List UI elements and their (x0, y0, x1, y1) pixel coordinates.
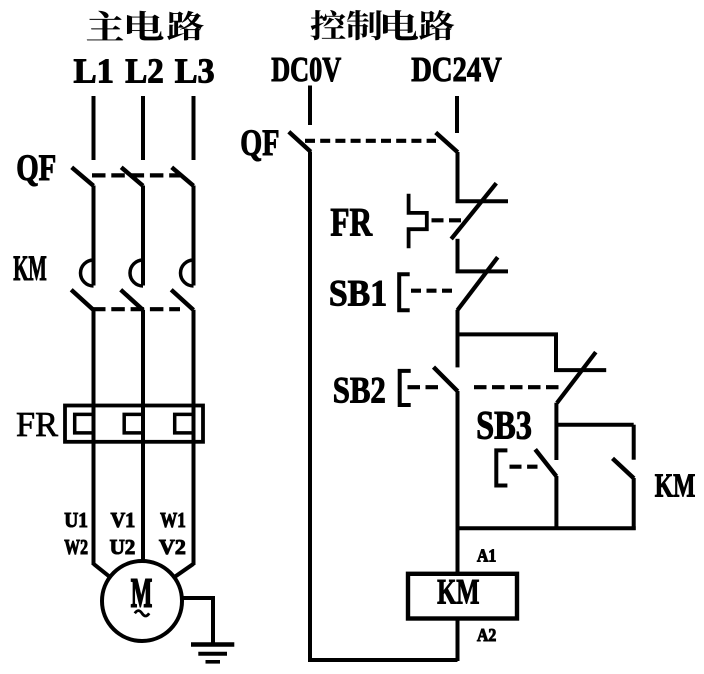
pushbutton SB3 NO blade (535, 449, 556, 476)
pushbutton SB2 NO blade (434, 367, 458, 391)
svg-text:DC0V: DC0V (271, 50, 341, 89)
wire coil to bottom return (456, 619, 460, 662)
wire DC24V stub (455, 96, 459, 133)
pushbutton SB1 actuator bracket (399, 274, 410, 310)
wire motor to ground (183, 596, 214, 600)
svg-text:V1: V1 (111, 508, 136, 532)
wire lead L into motor (94, 564, 110, 577)
FR actuator link dashed (432, 218, 464, 222)
svg-text:U2: U2 (110, 535, 136, 559)
thermal relay FR trip actuator (409, 194, 427, 248)
contactor KM main contact blade 2 (121, 290, 143, 310)
svg-text:L3: L3 (175, 52, 215, 91)
wire branch to SB2-NC (456, 334, 557, 370)
svg-text:V2: V2 (159, 535, 186, 559)
contact FR NC blade (451, 183, 496, 239)
svg-text:SB2: SB2 (333, 371, 386, 412)
motor M1 circle (102, 561, 182, 641)
wire SB2 to KM coil (456, 391, 460, 574)
title main-circuit 主电路 (87, 11, 204, 41)
pushbutton SB1 NC blade (457, 257, 497, 310)
wire QF-to-KM phase 2 (141, 186, 145, 286)
svg-text:SB3: SB3 (476, 403, 532, 448)
wire KM aux to junction (632, 478, 636, 530)
wire FR to SB1 (456, 239, 460, 272)
contact KM aux NO blade (613, 458, 634, 478)
motor AC tilde (135, 611, 149, 616)
wire QF to FR contact (456, 152, 460, 202)
wire L2 feeder stub (141, 96, 145, 160)
wire L1 feeder stub (92, 96, 96, 160)
thermal relay FR box (65, 406, 203, 442)
svg-text:KM: KM (13, 248, 47, 288)
contactor KM main contact blade 3 (171, 290, 193, 310)
ground bar 1 (191, 642, 234, 646)
pushbutton SB1 NC bar (456, 269, 509, 273)
svg-text:L2: L2 (125, 52, 164, 91)
wire L3 feeder stub (192, 96, 196, 160)
breaker QF control linkage dashed (305, 139, 436, 143)
wire bottom junction bar (456, 526, 636, 530)
SB1 actuator link dashed (411, 289, 455, 293)
svg-text:QF: QF (240, 123, 279, 164)
svg-text:FR: FR (16, 405, 59, 444)
wire KM-to-motor phase 3 (192, 310, 196, 565)
breaker QF pole 3 blade (172, 167, 194, 186)
svg-text:L1: L1 (74, 52, 115, 91)
SB3 actuator link dashed (510, 465, 538, 469)
svg-text:DC24V: DC24V (411, 50, 502, 89)
svg-text:KM: KM (655, 468, 696, 505)
wire tap down to KM aux (632, 425, 636, 460)
contactor KM linkage dashed (92, 307, 180, 311)
svg-text:U1: U1 (64, 508, 88, 532)
title control-circuit 控制电路 (311, 10, 455, 40)
thermal relay FR heater 3 (175, 414, 194, 433)
wire QF-to-KM phase 1 (92, 186, 96, 286)
wire SB1 to SB2 (456, 310, 460, 367)
pushbutton SB2 actuator bracket (400, 371, 411, 405)
wire lead R into motor (175, 564, 194, 577)
contactor KM main contact blade 1 (71, 290, 93, 310)
contactor KM main contact arc 3 (181, 260, 194, 286)
wire KM-to-motor phase 2 (141, 310, 145, 562)
ground stem (211, 596, 215, 645)
SB2 actuator link dashed left (408, 385, 442, 389)
wire SB3 to junction (554, 476, 558, 530)
breaker QF control pole L blade (289, 132, 311, 152)
pushbutton SB3 actuator bracket (496, 450, 507, 485)
ground bar 2 (198, 652, 227, 656)
contactor KM main contact arc 2 (130, 260, 143, 286)
wire DC0V rail and bottom return (310, 152, 458, 661)
wire DC0V stub (308, 86, 312, 126)
breaker QF pole 2 blade (121, 167, 143, 186)
svg-text:A2: A2 (477, 625, 496, 645)
ground bar 3 (206, 660, 221, 664)
contact FR NC bar (456, 199, 509, 203)
contactor coil KM box (408, 574, 517, 619)
svg-text:FR: FR (330, 200, 373, 245)
svg-text:W1: W1 (160, 508, 186, 532)
breaker QF pole 1 blade (72, 167, 94, 186)
breaker QF control pole R blade (436, 133, 458, 153)
pushbutton SB2 NC blade (557, 352, 596, 403)
svg-text:M: M (131, 570, 152, 616)
thermal relay FR heater 1 (75, 414, 94, 433)
svg-text:SB1: SB1 (329, 274, 387, 315)
wire KM-to-motor phase 1 (92, 310, 96, 565)
contactor KM main contact arc 1 (81, 260, 94, 286)
SB2 actuator link dashed right (474, 385, 560, 389)
breaker QF linkage dashed (92, 173, 180, 177)
svg-text:QF: QF (16, 148, 56, 189)
thermal relay FR heater 2 (124, 414, 143, 433)
wire tap to KM aux branch (556, 423, 633, 427)
svg-text:KM: KM (437, 572, 479, 612)
wire QF-to-KM phase 3 (192, 186, 196, 286)
svg-text:A1: A1 (477, 546, 496, 566)
wire SB2-NC to SB3 (554, 403, 558, 460)
pushbutton SB2 NC bar (554, 368, 606, 372)
svg-text:W2: W2 (64, 535, 88, 559)
